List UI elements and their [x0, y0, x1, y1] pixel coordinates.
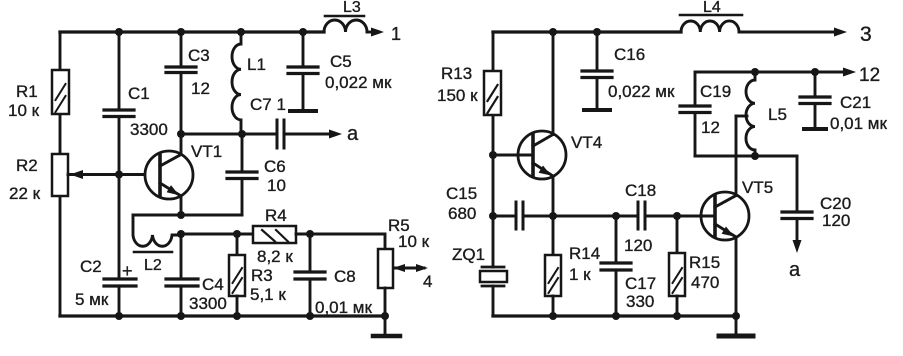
- node VT5 base R15: [673, 212, 681, 220]
- node C3 top rail: [177, 28, 185, 36]
- node R3 bottom rail: [233, 312, 241, 320]
- capacitor C15: [516, 202, 638, 229]
- wire left rail right circuit top: [492, 32, 495, 71]
- svg-text:a: a: [789, 259, 801, 281]
- svg-text:150 к: 150 к: [437, 86, 478, 105]
- label L3: [343, 0, 361, 16]
- node VT1 base divider: [115, 171, 123, 179]
- wire emitter line y215: [133, 214, 242, 217]
- node R3 top: [233, 230, 241, 238]
- capacitor C5: [288, 32, 318, 111]
- wire tank bottom y156: [695, 156, 797, 212]
- resistor R14: [545, 216, 561, 316]
- label C3 value: [188, 46, 210, 98]
- label 12 output: [859, 65, 880, 86]
- label R13 value: [437, 64, 478, 105]
- node C1 top rail: [115, 28, 123, 36]
- node L1 top rail: [237, 28, 245, 36]
- label L5: [768, 105, 787, 124]
- svg-text:3300: 3300: [189, 294, 227, 313]
- wire VT5 emitter to bottom rail: [735, 237, 738, 316]
- svg-text:a: a: [347, 123, 359, 145]
- svg-text:5 мк: 5 мк: [75, 290, 109, 309]
- node C5 L3 top rail: [299, 28, 307, 36]
- capacitor C18: [638, 202, 713, 229]
- resistor R5 potentiometer: [378, 249, 393, 316]
- inductor L5: [746, 72, 755, 156]
- node L5 bottom: [751, 152, 759, 160]
- svg-text:L2: L2: [144, 257, 162, 274]
- label C16 value: [608, 45, 675, 101]
- wire left rail below R13: [492, 115, 495, 216]
- svg-text:L5: L5: [768, 105, 787, 124]
- svg-text:330: 330: [626, 292, 654, 311]
- node C16 top rail: [593, 28, 601, 36]
- svg-text:120: 120: [822, 211, 850, 230]
- wire VT1 emitter to node: [180, 196, 183, 215]
- node VT1 collector: [177, 130, 185, 138]
- label C19 value: [700, 82, 731, 137]
- svg-text:C6: C6: [264, 157, 286, 176]
- svg-text:C4: C4: [202, 275, 224, 294]
- label C6 value: [264, 157, 286, 195]
- node C8 bottom rail: [306, 312, 314, 320]
- wire left rail segment R1 top: [59, 32, 62, 70]
- label R4 value: [257, 206, 293, 266]
- label 3 output: [860, 23, 872, 46]
- svg-text:L3: L3: [343, 0, 361, 16]
- wire top rail right circuit: [493, 30, 681, 33]
- wire VT4 base: [493, 154, 533, 157]
- wire left rail below R2: [59, 196, 62, 316]
- wire VT4 collector to top rail: [552, 32, 555, 135]
- label VT5: [742, 178, 773, 197]
- wire tank top y72: [695, 72, 815, 106]
- wire top rail left circuit: [60, 30, 324, 33]
- svg-text:L1: L1: [247, 55, 266, 74]
- node C8 top: [306, 230, 314, 238]
- wire L2 node to R4: [181, 233, 253, 236]
- label C7 value: [250, 95, 286, 114]
- resistor R3: [229, 234, 245, 316]
- label L4: [703, 0, 721, 16]
- node C2 bottom rail: [115, 312, 123, 320]
- svg-text:12: 12: [859, 65, 880, 86]
- svg-text:C7 1: C7 1: [250, 95, 286, 114]
- wire R4 to R5: [296, 234, 385, 249]
- svg-text:1: 1: [391, 24, 401, 44]
- svg-text:0,022 мк: 0,022 мк: [325, 73, 392, 92]
- svg-text:12: 12: [701, 118, 720, 137]
- svg-text:VT1: VT1: [191, 142, 222, 161]
- label L1: [247, 55, 266, 74]
- transistor VT4: [518, 131, 566, 179]
- svg-text:12: 12: [191, 79, 210, 98]
- svg-text:VT4: VT4: [571, 133, 602, 152]
- wire left rail between R1 and R2: [59, 114, 62, 154]
- wire collector node to C7: [181, 133, 277, 136]
- capacitor C21: [800, 72, 830, 129]
- svg-text:3: 3: [860, 23, 872, 46]
- svg-text:C19: C19: [700, 82, 731, 101]
- label 1 output: [391, 24, 401, 44]
- wire VT1 collector to node: [180, 134, 183, 155]
- svg-text:10 к: 10 к: [8, 101, 40, 120]
- node VT1 emitter: [177, 211, 185, 219]
- svg-text:L4: L4: [703, 0, 721, 16]
- svg-text:R15: R15: [689, 253, 720, 272]
- svg-text:R3: R3: [251, 266, 273, 285]
- label C17 value: [625, 274, 656, 311]
- inductor L4: [680, 15, 742, 32]
- node C15 left ZQ1: [489, 212, 497, 220]
- node L2 C4: [177, 230, 185, 238]
- capacitor C16: [582, 32, 612, 110]
- svg-text:C5: C5: [330, 52, 352, 71]
- node a output C6: [238, 130, 246, 138]
- svg-text:680: 680: [448, 204, 476, 223]
- wire output 12 with arrow: [815, 68, 856, 77]
- svg-text:0,01 мк: 0,01 мк: [830, 114, 887, 133]
- svg-text:ZQ1: ZQ1: [452, 245, 485, 264]
- svg-text:R4: R4: [265, 206, 287, 225]
- svg-text:R2: R2: [16, 156, 38, 175]
- capacitor C3: [166, 32, 196, 134]
- svg-text:10 к: 10 к: [398, 232, 430, 251]
- inductor L2: [133, 215, 181, 252]
- ground under R5: [373, 316, 400, 336]
- capacitor C8: [295, 234, 325, 316]
- svg-text:C21: C21: [840, 93, 871, 112]
- label C20 value: [789, 194, 851, 281]
- node C17 bottom rail: [612, 312, 620, 320]
- node R5 ground: [381, 312, 389, 320]
- inductor L3: [324, 16, 367, 32]
- label C21 value: [830, 93, 887, 133]
- wire VT5 base: [677, 215, 715, 218]
- inductor L1: [232, 32, 241, 134]
- wire output 1 with arrow: [367, 28, 384, 37]
- wire VT5 collector to L5 tap: [736, 116, 747, 196]
- resistor R13: [484, 71, 501, 115]
- svg-text:VT5: VT5: [742, 178, 773, 197]
- svg-text:C15: C15: [446, 184, 477, 203]
- svg-text:4: 4: [423, 272, 432, 291]
- node L5 top: [751, 68, 759, 76]
- crystal ZQ1: [480, 216, 507, 316]
- capacitor C19: [680, 106, 710, 156]
- capacitor C17: [601, 216, 631, 316]
- label C18 value: [624, 181, 656, 255]
- transistor VT5: [701, 192, 749, 240]
- resistor R4: [253, 226, 296, 243]
- capacitor C20: [782, 212, 812, 219]
- svg-text:C1: C1: [128, 84, 150, 103]
- capacitor C4: [166, 234, 198, 316]
- svg-text:C2: C2: [80, 257, 102, 276]
- svg-text:C16: C16: [614, 45, 645, 64]
- node R15 bottom rail: [673, 312, 681, 320]
- capacitor C6: [227, 134, 257, 215]
- node VT4 collector top rail: [549, 28, 557, 36]
- svg-text:R1: R1: [16, 82, 38, 101]
- svg-text:R13: R13: [441, 64, 472, 83]
- svg-text:3300: 3300: [130, 120, 168, 139]
- label C2 plus and value: [75, 257, 133, 309]
- label R15 value: [689, 253, 720, 292]
- svg-text:120: 120: [624, 236, 652, 255]
- wire R2 wiper to VT1 base with arrow: [68, 170, 159, 179]
- label C1 value: [128, 84, 168, 139]
- svg-text:0,01 мк: 0,01 мк: [315, 298, 372, 317]
- label VT4: [571, 133, 602, 152]
- node VT4 emitter R14: [549, 212, 557, 220]
- wire bottom rail left circuit: [60, 314, 385, 317]
- capacitor C7: [277, 120, 284, 148]
- label a output: [347, 123, 359, 145]
- svg-text:5,1 к: 5,1 к: [250, 285, 286, 304]
- label R2 value: [9, 156, 41, 203]
- label R1 value: [8, 82, 40, 120]
- svg-text:C17: C17: [625, 274, 656, 293]
- arrow a output below C20: [793, 219, 802, 254]
- node VT5 emitter ground: [732, 312, 740, 320]
- svg-text:1 к: 1 к: [569, 265, 591, 284]
- wire mid rail y216: [493, 215, 516, 218]
- wire output a with arrow: [284, 130, 342, 139]
- svg-text:0,022 мк: 0,022 мк: [608, 82, 675, 101]
- label R14 value: [569, 244, 600, 284]
- svg-text:R14: R14: [569, 244, 600, 263]
- label C15 value: [446, 184, 477, 223]
- svg-text:C3: C3: [188, 46, 210, 65]
- transistor VT1: [145, 151, 193, 199]
- wire output 3 with arrow: [739, 28, 847, 37]
- resistor R2 potentiometer: [52, 154, 68, 196]
- wire bottom rail right circuit: [493, 314, 736, 317]
- resistor R15: [669, 216, 685, 316]
- label R5 value: [388, 216, 432, 291]
- svg-text:10: 10: [267, 176, 286, 195]
- svg-text:22 к: 22 к: [9, 184, 41, 203]
- label C5 value: [325, 52, 392, 92]
- node C4 bottom rail: [177, 312, 185, 320]
- label C8 value: [315, 267, 372, 317]
- node C21 output 12: [811, 68, 819, 76]
- svg-text:8,2 к: 8,2 к: [257, 247, 293, 266]
- label ZQ1: [452, 245, 485, 264]
- label R3 value: [250, 266, 286, 304]
- wire VT4 emitter to mid rail: [552, 176, 555, 216]
- wiper arrow R5: [393, 264, 428, 272]
- ground under VT5 emitter: [719, 316, 753, 336]
- svg-text:+: +: [122, 261, 133, 281]
- svg-text:470: 470: [691, 273, 719, 292]
- node VT4 base: [489, 151, 497, 159]
- node R14 bottom rail: [549, 312, 557, 320]
- svg-text:C8: C8: [334, 267, 356, 286]
- node C17 top: [612, 212, 620, 220]
- label L2: [144, 257, 162, 274]
- capacitor C1: [104, 32, 134, 175]
- svg-text:C18: C18: [625, 181, 656, 200]
- capacitor C2 electrolytic: [104, 175, 136, 317]
- resistor R1: [52, 70, 69, 114]
- label VT1: [191, 142, 222, 161]
- label C4 value: [189, 275, 227, 313]
